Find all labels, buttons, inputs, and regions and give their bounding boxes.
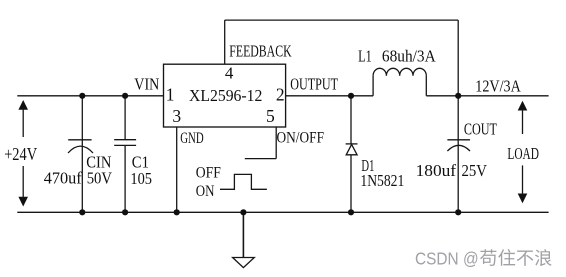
- svg-text:470uf: 470uf: [44, 169, 82, 188]
- svg-text:VIN: VIN: [134, 75, 159, 94]
- svg-text:50V: 50V: [87, 169, 112, 188]
- svg-text:OFF: OFF: [196, 165, 221, 182]
- svg-text:25V: 25V: [462, 161, 488, 180]
- svg-text:ON: ON: [196, 183, 215, 200]
- svg-text:CSDN @: CSDN @: [415, 249, 479, 269]
- svg-text:1N5821: 1N5821: [360, 171, 404, 190]
- svg-text:4: 4: [225, 64, 234, 83]
- svg-text:FEEDBACK: FEEDBACK: [229, 42, 291, 61]
- svg-text:68uh/3A: 68uh/3A: [382, 47, 436, 66]
- svg-text:LOAD: LOAD: [507, 144, 539, 163]
- svg-text:GND: GND: [180, 130, 204, 147]
- svg-text:180uf: 180uf: [416, 161, 457, 180]
- svg-text:3: 3: [172, 106, 181, 126]
- svg-text:COUT: COUT: [464, 119, 497, 138]
- svg-text:XL2596-12: XL2596-12: [189, 86, 262, 105]
- svg-text:+24V: +24V: [4, 144, 37, 164]
- svg-text:L1: L1: [358, 47, 372, 66]
- svg-text:12V/3A: 12V/3A: [475, 77, 521, 96]
- svg-text:1: 1: [166, 85, 175, 105]
- svg-text:OUTPUT: OUTPUT: [290, 74, 338, 93]
- svg-text:2: 2: [276, 85, 285, 105]
- svg-text:ON/OFF: ON/OFF: [277, 129, 325, 146]
- svg-text:5: 5: [266, 106, 275, 126]
- svg-text:105: 105: [130, 169, 152, 188]
